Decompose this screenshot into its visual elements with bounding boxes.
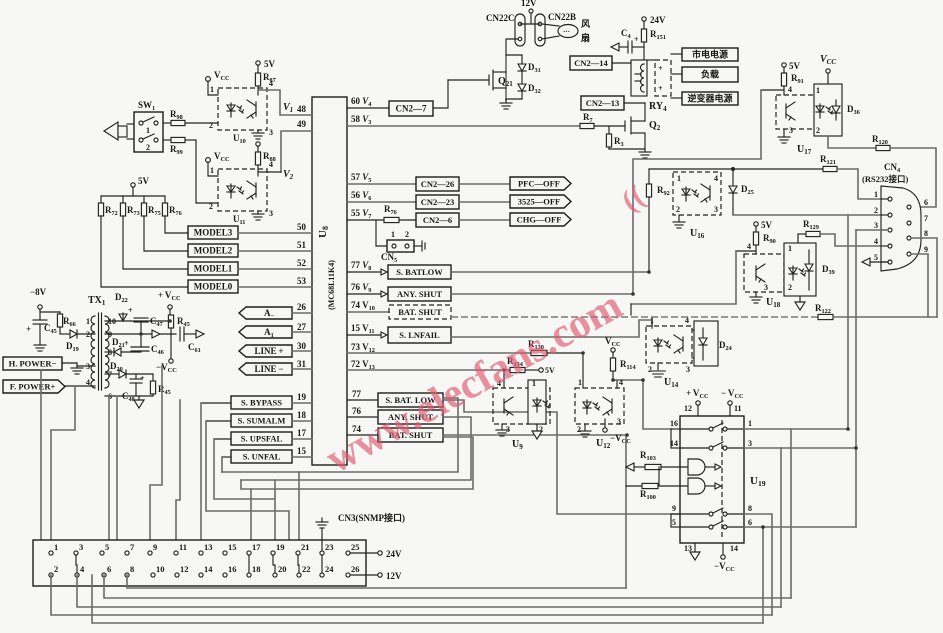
resistor R7: [580, 123, 594, 128]
svg-text:14: 14: [730, 544, 738, 553]
svg-text:4: 4: [747, 242, 751, 251]
svg-text:9: 9: [153, 542, 157, 552]
svg-text:3: 3: [79, 542, 83, 552]
wire trunk CN4 pin3 to U19 pins: [855, 230, 857, 527]
svg-text:+: +: [658, 84, 663, 93]
arrow input left of SW1: [104, 122, 118, 140]
capacitor C46: [131, 346, 149, 348]
svg-text:13: 13: [204, 542, 213, 552]
svg-text:21: 21: [301, 542, 310, 552]
node MODEL3: [188, 226, 238, 239]
svg-text:2: 2: [405, 230, 409, 239]
arrow at CN4 pin5: [862, 258, 870, 266]
wire R99 to U11 pin2: [196, 140, 218, 203]
svg-text:19: 19: [297, 392, 307, 402]
resistor R87: [257, 65, 259, 73]
power 5V rail for resistor bank: [131, 183, 135, 187]
svg-text:CHG—OFF: CHG—OFF: [517, 215, 562, 225]
svg-text:1: 1: [86, 317, 90, 326]
ground under C45: [34, 345, 46, 351]
wire U17 pin4 to Q2 drain route: [761, 89, 784, 91]
svg-text:49: 49: [297, 119, 307, 129]
wire -VCC drop: [150, 366, 162, 553]
svg-text:5V: 5V: [761, 220, 773, 230]
capacitor C47: [134, 317, 148, 319]
svg-text:PFC—OFF: PFC—OFF: [518, 179, 560, 189]
svg-text:4: 4: [714, 174, 718, 183]
wire CN22C to Q21 drain: [506, 39, 518, 55]
diode D20: [105, 373, 119, 375]
svg-text:S. SUMALM: S. SUMALM: [238, 416, 286, 426]
power 5V for R87: [256, 61, 260, 65]
svg-text:CN2—14: CN2—14: [574, 58, 608, 68]
svg-text:4: 4: [619, 378, 623, 387]
svg-text:16: 16: [670, 419, 678, 428]
transistor Q21 MOSFET: [505, 55, 507, 100]
svg-text:27: 27: [297, 322, 307, 332]
svg-text:2: 2: [209, 121, 213, 130]
svg-text:3: 3: [617, 417, 621, 426]
svg-text:1: 1: [578, 378, 582, 387]
resistor R3: [608, 126, 610, 134]
svg-text:逆变器电源: 逆变器电源: [687, 93, 732, 104]
svg-text:MODEL3: MODEL3: [194, 228, 233, 238]
resistor R92: [648, 169, 650, 184]
resistor R91: [783, 67, 785, 73]
diode D36: [835, 100, 837, 106]
wire R129 to CN4 pin4: [820, 234, 890, 246]
relay contact dashed box: [655, 60, 671, 96]
svg-text:F. POWER+: F. POWER+: [10, 382, 56, 392]
wire S.BAT.LOW left nest to CN3 pin17: [222, 398, 458, 472]
svg-text:+: +: [128, 306, 133, 315]
svg-text:+: +: [26, 324, 31, 334]
svg-text:6: 6: [748, 518, 752, 527]
optocoupler U12: [575, 388, 624, 424]
wire bus 1: [127, 575, 626, 588]
wire CN2-7 to Q21 gate: [433, 80, 448, 108]
wire R76 to MODEL3: [165, 216, 188, 233]
svg-text:17: 17: [252, 542, 261, 552]
resistor R121: [823, 166, 837, 171]
optocoupler U9: [493, 388, 550, 424]
wire S.LNFAIL to U14: [451, 320, 652, 337]
svg-text:3: 3: [269, 209, 273, 218]
node 24V terminal: [350, 552, 377, 554]
wire CN4 pin3 to trunk: [856, 229, 888, 231]
svg-text:3: 3: [874, 221, 878, 230]
svg-text:15: 15: [297, 446, 307, 456]
wire relay top link: [647, 59, 655, 61]
wire U19 pin8 right: [744, 514, 772, 615]
diode D19: [60, 333, 70, 335]
optocoupler U16: [673, 172, 721, 215]
node 3525-OFF flag: [510, 195, 571, 208]
svg-text:12: 12: [180, 564, 189, 574]
svg-text:S. BYPASS: S. BYPASS: [241, 398, 282, 408]
svg-text:22: 22: [302, 564, 311, 574]
svg-text:18: 18: [297, 410, 307, 420]
node LINE+ input flag: [239, 345, 292, 357]
svg-text:(MC68L11K4): (MC68L11K4): [327, 260, 336, 310]
wire R121 to CN4 pin1: [837, 169, 890, 199]
power -VCC at U12 pin3: [604, 419, 606, 427]
wire pin6 bottom: [105, 395, 153, 397]
wire R45 drop: [176, 400, 180, 553]
svg-text:4: 4: [788, 85, 792, 94]
wire secondary top rail: [105, 320, 170, 322]
svg-text:CN22C: CN22C: [486, 13, 515, 23]
wire R120 to CN4 pin6: [890, 148, 936, 207]
node CN3 odd pins: [49, 551, 53, 555]
wire Q21 source to diode bottom: [506, 98, 522, 100]
svg-text:S. BATLOW: S. BATLOW: [396, 267, 443, 277]
ground under U18 pin3: [755, 292, 757, 297]
resistor R99: [163, 139, 171, 141]
wire S.BYPASS to CN3 pin13: [200, 403, 202, 553]
ground under U10 pin3: [257, 130, 259, 133]
wire BAT.SHUT nest to CN3 pin17: [241, 437, 473, 489]
svg-text:24V: 24V: [386, 549, 402, 559]
and gate lower: [688, 478, 705, 494]
node A- input flag: [239, 307, 292, 319]
analog switch U19: [680, 416, 744, 543]
ground TX1 pin3: [71, 368, 83, 374]
svg-text:1: 1: [532, 379, 536, 388]
resistor R90: [755, 226, 757, 232]
svg-text:11: 11: [734, 404, 742, 413]
svg-text:1: 1: [210, 166, 214, 175]
diode D21: [105, 351, 114, 353]
svg-text:扇: 扇: [581, 32, 590, 43]
svg-text:18: 18: [252, 564, 261, 574]
svg-text:30: 30: [297, 341, 307, 351]
svg-text:12V: 12V: [521, 0, 537, 8]
power 5V above R91: [782, 63, 786, 67]
svg-text:77: 77: [352, 389, 362, 399]
node CHG-OFF flag: [510, 213, 571, 226]
wire pin9 rail: [105, 333, 176, 335]
ground triangle under U9 pin2: [536, 424, 538, 431]
svg-text:4: 4: [874, 237, 878, 246]
svg-text:5: 5: [672, 518, 676, 527]
capacitor C45: [39, 309, 41, 320]
wire bus 4: [51, 575, 772, 615]
diode D39: [808, 250, 810, 264]
resistor R120: [876, 145, 890, 150]
svg-text:CN2—23: CN2—23: [421, 197, 455, 207]
svg-text:+: +: [634, 35, 639, 44]
wire U19 pin3 right: [744, 447, 856, 449]
svg-text:−8V: −8V: [30, 287, 47, 297]
diode D32: [521, 71, 523, 84]
svg-text:3: 3: [764, 283, 768, 292]
wire nest h472 to CN3 pin21: [298, 472, 300, 553]
svg-text:1: 1: [391, 230, 395, 239]
svg-text:11: 11: [179, 542, 187, 552]
wire TX1 drop 1: [108, 396, 110, 540]
wire TX1 drop 2: [116, 396, 118, 540]
svg-text:1: 1: [788, 244, 792, 253]
resistor R45 lower: [152, 374, 154, 381]
wire BAT.SHUT to bus: [443, 435, 626, 588]
svg-text:2: 2: [146, 143, 150, 152]
wire pin49 from V2: [281, 131, 312, 172]
svg-text:1: 1: [54, 542, 58, 552]
ground under U12 pin2: [584, 424, 586, 431]
power 5V at R134: [539, 368, 543, 372]
node F.POWER+ flag: [3, 380, 65, 393]
svg-text:53: 53: [297, 276, 307, 286]
svg-text:15: 15: [228, 542, 237, 552]
node MODEL1: [188, 262, 238, 275]
diode D25: [732, 169, 734, 186]
wire D25 bottom to CN4 pin2 row: [733, 214, 890, 216]
svg-text:2: 2: [874, 206, 878, 215]
node S.UPSFAL box: [231, 432, 292, 445]
svg-text:6: 6: [924, 198, 928, 207]
wire R75 to MODEL2: [144, 216, 188, 251]
wire R103 to R100 link: [658, 467, 660, 486]
node V1 pin48 wire: [258, 90, 312, 115]
wire U19 pin6 right: [744, 526, 856, 528]
wire ANY.SHUT nest to CN3 pin19: [241, 417, 471, 480]
ground above CN3 pin23: [321, 529, 323, 551]
svg-text:BAT. SHUT: BAT. SHUT: [398, 307, 442, 317]
svg-text:风: 风: [581, 19, 590, 29]
wire S.UPSFAL nest: [214, 439, 274, 499]
svg-text:2: 2: [86, 330, 90, 339]
svg-text:51: 51: [297, 240, 307, 250]
node 12V terminal: [350, 574, 377, 576]
svg-text:52: 52: [297, 258, 307, 268]
node S.UNFAL box: [231, 450, 292, 463]
node V2 wire to pin49: [258, 171, 281, 173]
svg-text:50: 50: [297, 222, 307, 232]
wire U19 pin1 to trunk: [744, 428, 848, 430]
wire U19 pin6 branch down: [762, 527, 764, 623]
wire bus 5: [92, 575, 763, 623]
wire CN4 pin8 right: [911, 238, 937, 317]
diode D31: [506, 54, 522, 56]
svg-text:CN22B: CN22B: [548, 12, 576, 22]
svg-text:1: 1: [146, 126, 150, 135]
wire bus 3: [77, 575, 781, 607]
svg-text:···: ···: [563, 28, 570, 36]
node LINE- input flag: [239, 363, 292, 375]
node load label box: [682, 67, 738, 82]
svg-text:2: 2: [54, 564, 58, 574]
svg-text:1: 1: [677, 174, 681, 183]
svg-text:1: 1: [210, 85, 214, 94]
svg-text:CN3(SNMP接口): CN3(SNMP接口): [338, 512, 405, 523]
wire CN4 pin9 right: [911, 254, 928, 317]
node CN2-13 box: [581, 96, 624, 110]
ground triangle below U18: [799, 296, 801, 302]
svg-text:7: 7: [924, 214, 928, 223]
svg-text:14: 14: [204, 564, 213, 574]
ground under Q2: [639, 152, 651, 158]
op-amp U8 microcontroller MC68L11K4: [312, 97, 347, 465]
node MODEL2: [188, 244, 238, 257]
svg-text:H. POWER−: H. POWER−: [9, 359, 57, 369]
resistor R122: [818, 314, 833, 319]
wire Q2 source to ground: [609, 148, 645, 150]
optocoupler U17: [776, 95, 825, 129]
wire V13 branch to U9: [503, 370, 505, 388]
svg-text:17: 17: [297, 428, 307, 438]
svg-text:3525—OFF: 3525—OFF: [518, 197, 561, 207]
resistor R76: [164, 196, 166, 203]
fan motor: [558, 25, 578, 38]
node A1 input flag: [239, 326, 292, 338]
svg-text:S. UPSFAL: S. UPSFAL: [241, 434, 283, 444]
power 5V above R90: [754, 222, 758, 226]
diode D24 with box: [694, 321, 718, 366]
svg-text:6: 6: [107, 564, 111, 574]
svg-text:5V: 5V: [789, 61, 801, 71]
svg-text:10: 10: [156, 564, 165, 574]
svg-text:16: 16: [228, 564, 237, 574]
svg-text:S. UNFAL: S. UNFAL: [243, 452, 281, 462]
wire U14 transistor to box: [692, 329, 694, 331]
ground under U9 pin3: [501, 424, 503, 430]
wire S.UNFAL to h472: [221, 457, 223, 472]
resistor R73: [122, 196, 124, 203]
wire TX1 area drop left: [40, 370, 42, 540]
svg-text:5: 5: [105, 542, 109, 552]
svg-text:31: 31: [297, 359, 307, 369]
and gate upper: [688, 459, 705, 475]
svg-text:9: 9: [672, 504, 676, 513]
node mains power label box: [682, 48, 738, 61]
node inverter power label box: [682, 92, 738, 105]
svg-text:2: 2: [577, 425, 581, 434]
wire R72 to MODEL0: [101, 216, 188, 287]
wire U19 pin1 branch down: [790, 429, 792, 598]
svg-text:2: 2: [788, 283, 792, 292]
connector CN5: [376, 220, 387, 246]
relay RY4 coil: [631, 60, 647, 96]
svg-text:3: 3: [789, 126, 793, 135]
capacitor C61: [179, 327, 181, 341]
svg-text:3: 3: [714, 205, 718, 214]
resistor R98: [163, 122, 171, 124]
resistor R76 on pin55: [384, 217, 399, 222]
svg-text:1: 1: [874, 190, 878, 199]
svg-text:CN2—26: CN2—26: [421, 179, 455, 189]
wire U19 pin9-5 bracket: [671, 513, 680, 515]
node MODEL0: [188, 280, 238, 293]
svg-text:市电电源: 市电电源: [692, 49, 728, 60]
node PFC-OFF flag: [510, 177, 571, 190]
wire S.BATLOW to R92 and U16: [451, 271, 649, 273]
optocoupler U10: [218, 88, 267, 130]
optocoupler U11: [218, 169, 267, 211]
svg-text:2: 2: [209, 202, 213, 211]
svg-text:5: 5: [874, 253, 878, 262]
node CN3 even pins: [49, 573, 53, 577]
svg-text:ANY. SHUT: ANY. SHUT: [397, 289, 442, 299]
svg-text:24V: 24V: [650, 15, 666, 25]
resistor R129: [797, 234, 799, 243]
svg-text:3: 3: [686, 365, 690, 374]
svg-text:26: 26: [297, 302, 307, 312]
ground under U14 pin2: [657, 363, 659, 370]
watermark: [318, 281, 630, 482]
resistor R134: [510, 367, 525, 372]
power VCC for U11: [206, 158, 211, 163]
svg-text:+: +: [140, 374, 145, 383]
svg-text:4: 4: [685, 316, 689, 325]
switch SW1: [134, 112, 163, 152]
wire R73 to MODEL1: [123, 216, 188, 269]
svg-text:1: 1: [816, 86, 820, 95]
wire bus 2: [104, 575, 791, 598]
wire U18 pin4 to left riser: [736, 250, 756, 252]
svg-text:S. LNFAIL: S. LNFAIL: [399, 330, 440, 340]
svg-text:+: +: [658, 64, 663, 73]
wire S.BAT.LOW to U19 pin9: [443, 400, 682, 514]
svg-text:LINE +: LINE +: [255, 346, 284, 356]
svg-text:8: 8: [748, 504, 752, 513]
resistor R88: [256, 142, 260, 146]
svg-text:12V: 12V: [386, 571, 402, 581]
svg-text:MODEL2: MODEL2: [194, 246, 233, 256]
svg-text:8: 8: [130, 564, 134, 574]
wire CN22 top link: [520, 23, 540, 25]
wire U17 out to R120: [828, 136, 876, 148]
svg-text:48: 48: [297, 104, 307, 114]
node S.BYPASS box: [231, 396, 292, 409]
resistor R45 upper: [170, 315, 172, 321]
node junction dots: [611, 378, 615, 382]
svg-text:23: 23: [325, 542, 334, 552]
node S.SUMALM box: [231, 414, 292, 427]
ground under U11 pin3: [257, 211, 259, 214]
wire U16 top rail: [649, 168, 733, 170]
svg-text:(RS232接口): (RS232接口): [862, 174, 908, 184]
wire U19 pin16-14 bracket: [671, 428, 680, 430]
svg-text:5V: 5V: [264, 59, 276, 69]
ground under U16 pin2: [678, 215, 680, 222]
svg-text:5V: 5V: [138, 176, 150, 186]
wire CN4 pin2 trunk to U19 pin1: [847, 215, 849, 429]
svg-text:MODEL0: MODEL0: [194, 282, 233, 292]
transistor Q2 MOSFET: [624, 121, 626, 131]
optocoupler U14: [646, 326, 692, 363]
wire CN3 pin pair links: [76, 555, 77, 573]
svg-text:CN2—13: CN2—13: [586, 98, 620, 108]
svg-text:MODEL1: MODEL1: [194, 264, 233, 274]
svg-text:2: 2: [816, 126, 820, 135]
ground triangle under C48: [138, 396, 140, 400]
svg-text:LINE −: LINE −: [255, 364, 284, 374]
svg-text:9: 9: [924, 245, 928, 254]
wire F.POWER drop to CN3: [51, 386, 75, 553]
svg-text:CN2—6: CN2—6: [423, 215, 452, 225]
power 24V: [642, 17, 646, 21]
svg-text:20: 20: [278, 564, 287, 574]
wire BAT.SHUT to R122: [451, 316, 818, 318]
arrow left of C4: [611, 43, 619, 51]
svg-text:CN2—7: CN2—7: [396, 104, 427, 114]
svg-text:25: 25: [351, 542, 360, 552]
node CN2-14 box: [570, 56, 612, 70]
power -VCC: [169, 359, 173, 363]
svg-text:8: 8: [924, 229, 928, 238]
wire R114 to U12 pin4 and U19 pin16: [613, 380, 617, 388]
